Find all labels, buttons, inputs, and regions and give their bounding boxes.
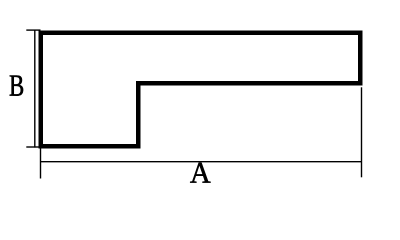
step-shaped part outline <box>41 33 361 147</box>
dimension A right tick <box>361 87 363 177</box>
dimension line B (vertical) <box>34 30 36 148</box>
label B <box>10 75 23 95</box>
dimension B bottom tick <box>26 146 40 148</box>
dimension B top tick <box>26 29 40 31</box>
dimension line A (horizontal) <box>41 161 362 163</box>
label A <box>190 163 210 183</box>
dimension A left tick <box>40 149 42 179</box>
